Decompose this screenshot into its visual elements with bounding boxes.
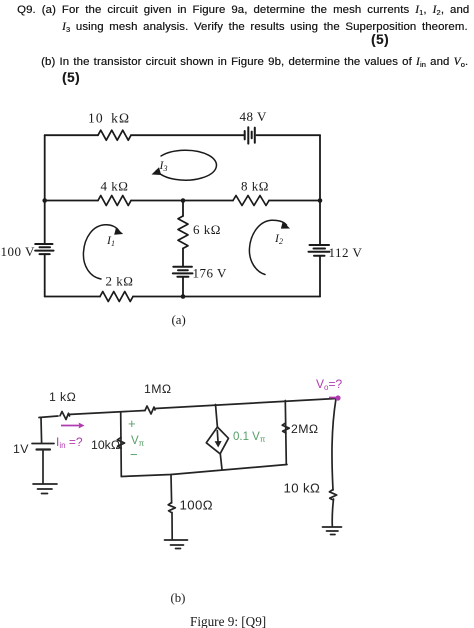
label V_o = ? <box>316 377 342 392</box>
label I3 mesh current <box>159 158 168 173</box>
svg-text:Vo=?: Vo=? <box>316 377 342 392</box>
wire left vertical upper <box>44 135 46 244</box>
wire right vertical lower <box>319 256 321 297</box>
ground middle <box>165 540 188 549</box>
label 176 V <box>193 266 228 281</box>
label minus sign <box>130 447 138 462</box>
wire mid row left segment <box>45 200 98 202</box>
dependent source diamond <box>206 427 228 454</box>
mesh current loop I1 arc <box>83 225 119 279</box>
svg-text:100 V: 100 V <box>1 244 36 259</box>
resistor R 6k vertical <box>178 216 188 248</box>
battery 48V plates <box>245 127 255 143</box>
wire (b) left vertical to battery <box>40 418 43 444</box>
resistor R 8k <box>233 196 269 206</box>
resistor R 2k <box>100 292 133 302</box>
svg-text:0.1 Vπ: 0.1 Vπ <box>233 431 266 444</box>
svg-text:10 kΩ: 10 kΩ <box>284 481 321 496</box>
label 112 V <box>329 245 363 260</box>
mesh current loop I3 arc <box>157 150 217 180</box>
node dot bottom-center <box>181 294 186 299</box>
arrow I_in <box>61 423 85 429</box>
svg-text:2 kΩ: 2 kΩ <box>106 274 134 289</box>
dep-source arrowhead <box>215 441 222 448</box>
caption (b) <box>171 591 186 605</box>
wire top middle segment <box>131 134 244 136</box>
svg-text:1V: 1V <box>13 442 29 456</box>
svg-text:2MΩ: 2MΩ <box>291 422 318 436</box>
question text line 1 <box>17 4 469 16</box>
arrowhead of I3 loop <box>152 167 162 175</box>
wire dep-source branch lower <box>220 454 222 470</box>
label plus sign <box>128 416 136 431</box>
battery 1V plates <box>32 444 54 450</box>
svg-text:I2: I2 <box>274 231 283 246</box>
svg-text:1MΩ: 1MΩ <box>144 382 171 396</box>
svg-text:48 V: 48 V <box>240 109 268 124</box>
svg-text:(b): (b) <box>171 591 186 605</box>
resistor R 4k <box>98 196 131 206</box>
wire battery to ground <box>42 450 44 484</box>
wire dep-source branch upper <box>216 405 218 428</box>
wire center vertical mid <box>182 248 184 266</box>
svg-text:10 kΩ: 10 kΩ <box>88 111 130 126</box>
green labels of circuit (b) <box>128 416 266 462</box>
wire left vertical lower <box>44 254 46 296</box>
wire right vertical upper <box>319 135 321 245</box>
wire output branch vertical <box>332 399 336 527</box>
label 10kOhm handwritten <box>91 438 120 452</box>
question text line 2 <box>62 21 468 33</box>
svg-text:I1: I1 <box>106 233 115 248</box>
label 48 V <box>240 109 268 124</box>
svg-text:6 kΩ: 6 kΩ <box>193 222 221 237</box>
dep-source arrow shaft <box>216 431 219 445</box>
svg-text:10kΩ: 10kΩ <box>91 438 120 452</box>
wire (b) top rail <box>39 399 336 418</box>
wire bottom right segment <box>133 296 320 298</box>
wire top left segment <box>45 134 98 136</box>
battery 176V plates <box>173 267 193 277</box>
label 1 MOhm handwritten <box>144 382 171 396</box>
label 100 V <box>1 244 36 259</box>
question text line 4 <box>41 56 468 68</box>
arrowhead of I1 loop <box>114 228 123 235</box>
label 2 kOhm <box>106 274 134 289</box>
wire mid row right segment <box>269 200 320 202</box>
svg-text:8 kΩ: 8 kΩ <box>241 179 269 194</box>
label 0.1 V_pi <box>233 431 266 444</box>
resistor 1M tick <box>145 406 155 414</box>
label 2MOhm handwritten <box>291 422 318 436</box>
wire center vertical lower <box>182 277 184 297</box>
svg-text:(a): (a) <box>172 313 186 327</box>
battery 100V plates <box>35 244 53 254</box>
label I_in = ? <box>56 435 83 450</box>
svg-text:4 kΩ: 4 kΩ <box>101 179 129 194</box>
svg-text:176 V: 176 V <box>193 266 228 281</box>
resistor 2M tick <box>282 423 289 433</box>
mesh current loop I2 arc <box>249 220 286 274</box>
label 4 kOhm <box>101 179 129 194</box>
marks (5) for part b <box>62 70 80 85</box>
node dot mid-right <box>318 198 323 203</box>
node dot mid-center <box>181 198 186 203</box>
node dot mid-left <box>42 198 47 203</box>
svg-text:−: − <box>130 447 138 462</box>
label I2 mesh current <box>274 231 283 246</box>
arrowhead of I2 loop <box>281 221 290 228</box>
svg-text:+: + <box>128 416 136 431</box>
label V_pi <box>131 435 145 448</box>
marks (5) for part a <box>371 32 389 47</box>
battery 112V plates <box>309 245 330 256</box>
labels of circuit (a) <box>1 109 363 628</box>
label 100 Ohm handwritten <box>180 498 213 513</box>
ground left <box>33 484 57 494</box>
svg-text:100Ω: 100Ω <box>180 498 213 513</box>
resistor 100ohm tick <box>168 503 175 513</box>
output node dot <box>329 395 341 400</box>
wire (b) box left vertical <box>120 412 123 477</box>
resistor 10k tick vertical <box>117 438 124 449</box>
wire mid row center segment <box>131 200 233 202</box>
resistor R 10k <box>98 130 131 140</box>
svg-text:1 kΩ: 1 kΩ <box>49 390 76 404</box>
wire 100ohm branch lower <box>171 513 173 540</box>
handwritten black labels of circuit (b) <box>13 382 320 513</box>
label 10 kOhm output handwritten <box>284 481 321 496</box>
ground right <box>323 527 342 535</box>
wire center vertical upper <box>182 201 184 217</box>
resistor 1k tick <box>60 412 70 420</box>
svg-text:I3: I3 <box>159 158 168 173</box>
wire top right segment <box>257 134 321 136</box>
wire (b) box bottom rail <box>121 465 287 477</box>
label I1 mesh current <box>106 233 115 248</box>
label 8 kOhm <box>241 179 269 194</box>
caption Figure 9 <box>190 614 266 628</box>
wire 100ohm branch upper <box>170 475 173 504</box>
label 10 kOhm <box>88 111 130 126</box>
label 1V handwritten <box>13 442 29 456</box>
caption (a) <box>172 313 186 327</box>
resistor 10k output tick <box>329 490 336 501</box>
svg-text:Iin =?: Iin =? <box>56 435 83 450</box>
svg-text:Figure 9: [Q9]: Figure 9: [Q9] <box>190 614 266 628</box>
svg-text:112 V: 112 V <box>329 245 363 260</box>
wire bottom left segment <box>45 296 100 298</box>
label 1 kOhm handwritten <box>49 390 76 404</box>
wire 2M branch vertical <box>285 401 286 465</box>
magenta annotations of circuit (b) <box>56 377 342 450</box>
label 6 kOhm <box>193 222 221 237</box>
